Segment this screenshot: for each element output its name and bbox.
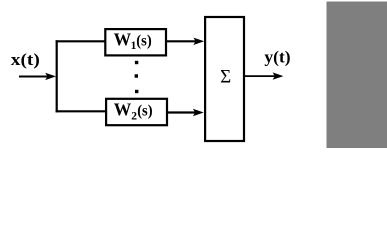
wire output shaft <box>245 75 277 77</box>
svg-text:x(t): x(t) <box>11 50 40 69</box>
ellipsis dot 3 <box>135 90 138 93</box>
wire W1 to sigma arrowhead <box>193 38 204 45</box>
wire output arrowhead <box>273 72 284 79</box>
ellipsis dot 1 <box>135 61 138 64</box>
wire branch vertical <box>56 40 58 112</box>
wire input arrowhead <box>45 73 56 80</box>
svg-text:Σ: Σ <box>220 67 231 88</box>
wire W1 to sigma shaft <box>166 40 197 42</box>
svg-text:W: W <box>114 29 132 49</box>
wire W2 to sigma arrowhead <box>193 109 204 116</box>
svg-text:(s): (s) <box>136 32 151 49</box>
svg-text:y(t): y(t) <box>264 48 290 67</box>
wire top branch horizontal <box>56 40 106 42</box>
wire bottom branch horizontal <box>56 110 107 112</box>
gray sidebar <box>327 2 387 149</box>
svg-text:W: W <box>114 99 132 119</box>
block W1 box <box>105 29 166 55</box>
block W2 box <box>106 99 167 125</box>
summation block box <box>205 17 244 141</box>
wire input arrow shaft <box>19 76 49 78</box>
wire W2 to sigma shaft <box>167 111 196 113</box>
ellipsis dot 2 <box>135 74 138 77</box>
svg-text:(s): (s) <box>137 102 152 119</box>
